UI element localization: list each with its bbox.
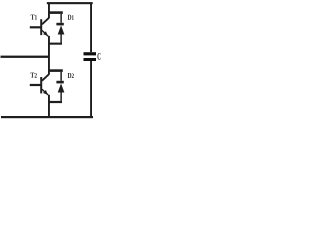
label D1	[68, 15, 74, 20]
T1 base bar	[40, 19, 42, 35]
D1 upper lead	[60, 14, 62, 23]
top rail (+DC bus)	[47, 2, 93, 4]
T1 base lead	[30, 26, 41, 28]
label T1	[31, 15, 37, 20]
D2 lower lead	[60, 93, 62, 101]
T2 collector diagonal	[42, 74, 49, 81]
T2 base lead	[30, 84, 41, 86]
T1 collector diagonal	[42, 18, 49, 25]
C top lead	[90, 3, 92, 52]
C bottom lead	[90, 61, 92, 117]
T1 emitter diagonal	[42, 30, 48, 36]
C bottom plate	[84, 58, 97, 61]
wire: main vertical middle (phase node)	[48, 36, 50, 75]
D2 triangle (anode, pointing up)	[58, 83, 65, 92]
bottom rail (-DC bus)	[1, 116, 93, 118]
D1 cathode bar 2	[56, 23, 63, 26]
D1 lower lead	[60, 35, 62, 43]
label D2	[68, 73, 74, 78]
T1 emitter arrowhead	[43, 31, 48, 36]
T2 emitter arrowhead	[43, 90, 48, 95]
T2 base bar	[40, 77, 42, 93]
capacitor C	[84, 3, 97, 117]
transistor T2	[30, 74, 49, 95]
diode D1	[49, 11, 65, 44]
D2 upper lead	[60, 72, 62, 81]
D1 triangle (anode, pointing up)	[58, 25, 65, 34]
transistor T1	[30, 18, 49, 36]
wire: output (phase) to left edge	[1, 56, 49, 58]
T2 emitter diagonal	[42, 89, 48, 95]
C top plate	[84, 52, 97, 55]
D1 anode wire to vertical	[49, 43, 63, 45]
D1 cathode bar / tap to vertical	[50, 11, 63, 14]
wire: main vertical upper (T1 collector to rail)	[48, 3, 50, 18]
D2 cathode bar 2	[56, 81, 63, 84]
diode D2	[49, 69, 65, 103]
label T2	[30, 73, 36, 78]
wire: main vertical lower (T2 emitter to -rail)	[48, 95, 50, 117]
D2 anode wire to vertical	[49, 101, 63, 103]
D2 cathode bar / tap to vertical	[50, 69, 63, 72]
label C	[97, 53, 100, 60]
